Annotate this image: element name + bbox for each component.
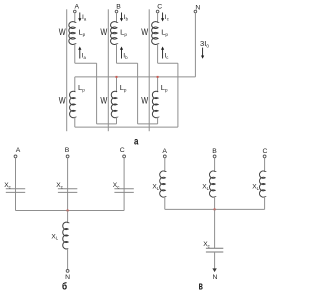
current arrow 3I0 bbox=[202, 48, 204, 57]
wire C winding out bbox=[157, 44, 159, 64]
svg-text:а: а bbox=[134, 136, 139, 147]
b wire A bbox=[15, 158, 17, 211]
b wire to reactor bbox=[67, 211, 69, 223]
v wire A lower bbox=[164, 197, 166, 210]
b bus bbox=[16, 210, 125, 212]
svg-text:W: W bbox=[141, 95, 148, 105]
wire return C to A lower bbox=[74, 117, 76, 127]
wire jog C bbox=[158, 62, 178, 64]
svg-text:W: W bbox=[100, 27, 107, 37]
b terminal N bbox=[66, 270, 69, 273]
wire A winding out bbox=[74, 44, 76, 64]
svg-text:XL: XL bbox=[252, 184, 259, 191]
upper winding A bbox=[69, 22, 75, 45]
svg-text:B: B bbox=[212, 148, 217, 155]
wire A terminal to winding bbox=[74, 13, 76, 23]
v wire B upper bbox=[214, 158, 216, 172]
b reactor X_L bbox=[63, 222, 68, 249]
v reactor X_L B bbox=[210, 171, 216, 197]
b capacitor X_C C bbox=[114, 188, 133, 190]
b wire to N bbox=[67, 249, 69, 270]
current arrow Ia in bbox=[79, 13, 81, 19]
current arrow Ic out bbox=[162, 49, 164, 58]
svg-text:3I0: 3I0 bbox=[200, 39, 209, 48]
v reactor X_L A bbox=[160, 171, 166, 197]
lower winding lead B bbox=[116, 77, 118, 92]
v terminal N arrow bbox=[212, 268, 216, 272]
svg-text:Ia: Ia bbox=[82, 14, 87, 21]
svg-text:Xс: Xс bbox=[203, 241, 210, 248]
wire jog B bbox=[117, 62, 138, 64]
wire C terminal to winding bbox=[157, 13, 159, 23]
core limb B bbox=[107, 9, 109, 131]
b junction bbox=[67, 210, 69, 212]
svg-text:Lр: Lр bbox=[78, 28, 85, 37]
svg-text:XL: XL bbox=[51, 233, 58, 240]
svg-text:Lр: Lр bbox=[161, 28, 168, 37]
lower winding B bbox=[111, 91, 117, 117]
svg-text:C: C bbox=[263, 148, 268, 155]
svg-text:C: C bbox=[120, 147, 125, 154]
current arrow Ic in bbox=[162, 13, 164, 19]
svg-text:A: A bbox=[75, 4, 80, 11]
core limb C bbox=[148, 9, 150, 131]
svg-text:W: W bbox=[141, 27, 148, 37]
wire link A to B lower bbox=[97, 123, 117, 125]
svg-text:A: A bbox=[162, 148, 167, 155]
wire B winding out bbox=[116, 44, 118, 64]
lower winding lead C bbox=[157, 77, 159, 92]
svg-text:б: б bbox=[62, 280, 67, 292]
neutral bus bbox=[75, 76, 196, 78]
v wire C upper bbox=[264, 158, 266, 172]
svg-text:B: B bbox=[65, 147, 70, 154]
b wire C bbox=[123, 158, 125, 211]
svg-text:XL: XL bbox=[152, 184, 159, 191]
svg-text:N: N bbox=[212, 274, 217, 281]
svg-text:A: A bbox=[16, 147, 21, 154]
svg-text:Xс: Xс bbox=[113, 182, 120, 189]
v wire to N bbox=[214, 252, 216, 269]
v wire B lower bbox=[214, 197, 216, 210]
wire N bbox=[194, 13, 196, 77]
current arrow Ia out bbox=[79, 49, 81, 58]
current arrow Ib in bbox=[121, 13, 123, 19]
b wire B bbox=[67, 158, 69, 211]
v capacitor Xc bbox=[206, 247, 223, 249]
current arrow Ib out bbox=[121, 49, 123, 58]
lower winding lead A bbox=[74, 77, 76, 92]
v bus bbox=[165, 208, 265, 210]
svg-text:W: W bbox=[100, 95, 107, 105]
core limb A bbox=[66, 9, 68, 131]
v wire C lower bbox=[264, 197, 266, 210]
b capacitor X_C A bbox=[6, 188, 25, 190]
svg-text:Xс: Xс bbox=[4, 182, 11, 189]
svg-text:W: W bbox=[59, 95, 66, 105]
junction C lower bbox=[157, 76, 159, 78]
v junction bbox=[214, 208, 216, 210]
svg-text:Lр: Lр bbox=[161, 83, 168, 92]
wire link B to C lower bbox=[138, 123, 158, 125]
wire B terminal to winding bbox=[116, 13, 118, 23]
svg-text:W: W bbox=[59, 27, 66, 37]
b capacitor X_C B bbox=[58, 188, 77, 190]
lower winding C bbox=[152, 91, 158, 117]
svg-text:в: в bbox=[199, 280, 203, 292]
svg-text:Lр: Lр bbox=[120, 83, 127, 92]
svg-text:Ib: Ib bbox=[123, 53, 128, 60]
svg-text:Ia: Ia bbox=[82, 53, 87, 60]
svg-text:XL: XL bbox=[202, 184, 209, 191]
v wire to capacitor bbox=[214, 209, 216, 248]
upper winding B bbox=[111, 22, 117, 45]
svg-text:Xс: Xс bbox=[56, 182, 63, 189]
lower winding A bbox=[70, 91, 76, 117]
wire jog A bbox=[75, 62, 97, 64]
svg-text:C: C bbox=[157, 4, 162, 11]
svg-text:Lр: Lр bbox=[78, 83, 85, 92]
svg-text:B: B bbox=[116, 4, 121, 11]
svg-text:Ic: Ic bbox=[164, 53, 168, 60]
svg-text:Lр: Lр bbox=[120, 28, 127, 37]
upper winding C bbox=[152, 22, 158, 45]
v reactor X_L C bbox=[260, 171, 266, 197]
svg-text:Ib: Ib bbox=[124, 14, 129, 21]
v wire A upper bbox=[164, 158, 166, 172]
junction B lower bbox=[116, 76, 118, 78]
svg-text:Ic: Ic bbox=[165, 14, 169, 21]
